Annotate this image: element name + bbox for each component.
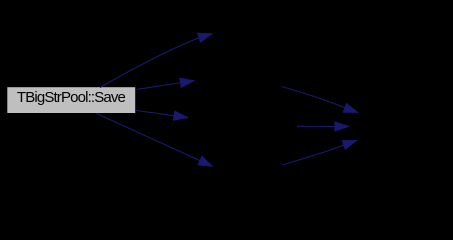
edge E7 wire node4 to right node <box>282 145 344 165</box>
edge E6 wire node3 to right node <box>297 125 335 127</box>
edge E2 wire to node 2 <box>137 83 181 90</box>
edge E4 wire to node 4 <box>97 114 201 161</box>
node TBigStrPool::Save label <box>7 87 135 108</box>
edge E1 arrowhead <box>198 33 212 42</box>
edge E5 arrowhead <box>343 104 357 113</box>
node TBigStrPool::Save box <box>7 87 135 113</box>
edge E7 arrowhead <box>342 141 356 150</box>
edge E2 arrowhead <box>180 78 194 87</box>
edge E3 wire to node 3 <box>136 111 174 116</box>
edge E5 wire node2 to right node <box>282 87 345 108</box>
edge E3 arrowhead <box>174 111 188 120</box>
edge E1 wire to node 1 <box>100 38 199 88</box>
edge E4 arrowhead <box>198 156 212 166</box>
edge E6 arrowhead <box>335 122 349 131</box>
